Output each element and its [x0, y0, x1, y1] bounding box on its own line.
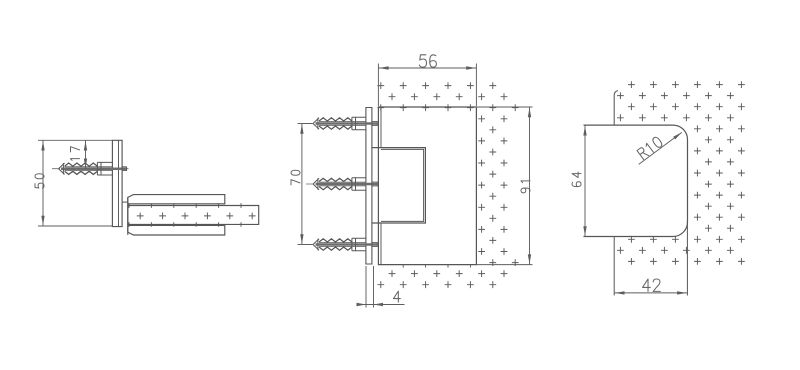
middle view wall anchor 2 [313, 178, 377, 191]
middle view anchor 3 centerline [306, 244, 378, 246]
left view glass hatch marks [129, 203, 256, 227]
dimension 17 text [71, 147, 80, 161]
dimension 70 extension lines [298, 124, 313, 245]
right view wall hatch [617, 81, 745, 265]
middle view clamp body outline [378, 107, 476, 265]
left view wall-mount plate [112, 140, 122, 226]
radius R10 text [637, 136, 663, 160]
dimension 17 line and arrows [84, 140, 87, 168]
left view wall anchor plug [59, 162, 127, 175]
dimension 64 line and arrows [583, 125, 586, 236]
middle view hinge boss [372, 148, 426, 223]
middle view wall anchor 1 [313, 117, 377, 130]
dimension 70 text [291, 170, 300, 185]
right view wall edge above [614, 91, 618, 126]
right view notch right edge extension [686, 221, 688, 296]
middle view body inner edge line [380, 107, 382, 265]
dimension 70 line and arrows [300, 124, 303, 245]
dimension 4 line and arrows [357, 303, 405, 306]
left view anchor centerline [52, 168, 129, 170]
radius R10 leader and arrow [639, 132, 682, 164]
dimension 4 extension lines [366, 266, 374, 308]
right view wall edge below and 42 extension [613, 237, 615, 296]
left view plate-arm connector line [122, 201, 128, 203]
dimension 42 line and arrows [614, 291, 687, 294]
left view glass panel [128, 206, 259, 225]
left view clamp left edge [127, 197, 129, 235]
dimension 42 text [643, 279, 661, 291]
left view top jaw plate [128, 195, 225, 204]
dimension 50 extension lines [38, 140, 112, 226]
middle view anchor 2 centerline [306, 183, 378, 185]
dimension 91 line and arrows [528, 107, 531, 265]
middle view wall anchor 3 [313, 238, 377, 251]
dimension 56 extension lines [378, 64, 476, 107]
middle view wall hatch [377, 82, 518, 288]
middle view back plate strip [366, 108, 372, 265]
dimension 4 text [393, 291, 400, 302]
dimension 91 extension lines [476, 107, 532, 265]
right view notch outline [584, 125, 688, 236]
dimension 56 text [419, 55, 436, 67]
dimension 50 line and arrows [41, 140, 44, 226]
dimension 56 line and arrows [378, 66, 476, 69]
dimension 91 text [521, 181, 530, 193]
left view bottom jaw plate [128, 225, 225, 235]
dimension 50 text [35, 174, 44, 189]
middle view anchor 1 centerline [306, 123, 378, 125]
dimension 64 text [572, 172, 581, 187]
